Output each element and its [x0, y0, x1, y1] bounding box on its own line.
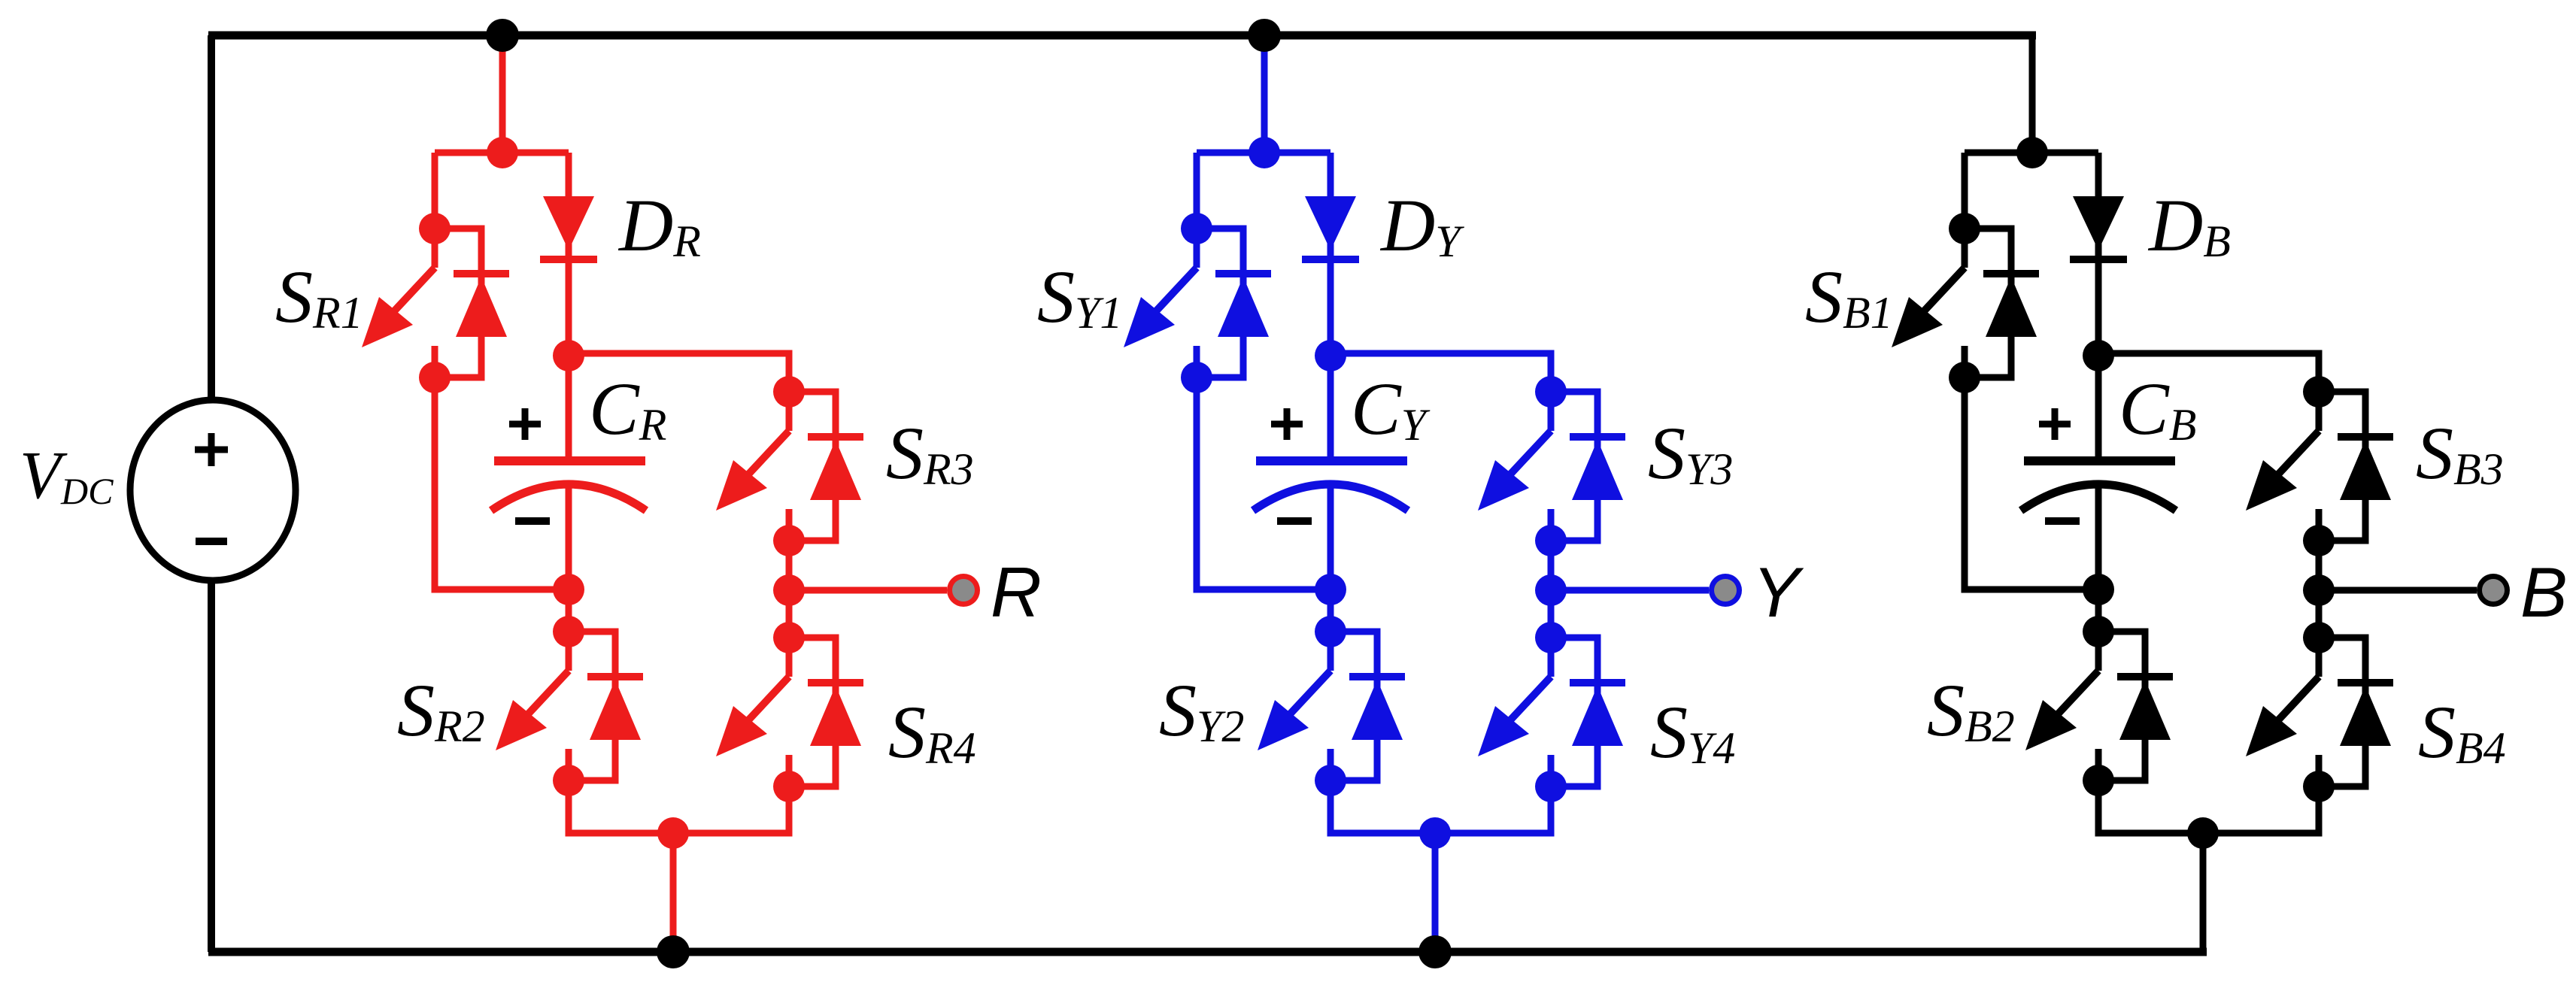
node: S_R1 bottom terminal	[419, 362, 451, 393]
node: phase R midpoint junction	[657, 817, 689, 849]
node: S_B1 top terminal	[1949, 213, 1980, 244]
switch S_Y4	[1478, 638, 1625, 786]
node: phase B output junction	[2303, 574, 2335, 606]
label: C_Y plus polarity mark	[1271, 421, 1303, 428]
node: phase R top junction	[487, 137, 518, 168]
capacitor C_Y	[1253, 356, 1408, 589]
wire: output lead	[2319, 587, 2477, 594]
switch S_R3	[716, 392, 863, 541]
label: C_Y minus polarity mark	[1277, 517, 1312, 525]
node: S_R4 bottom terminal	[773, 771, 805, 802]
wire: S_R4 to midpoint	[673, 786, 789, 833]
node: S_B1 bottom terminal	[1949, 362, 1980, 393]
wire: to S_B2	[2095, 589, 2102, 632]
wire: S_Y4 to midpoint	[1435, 786, 1551, 833]
switch S_B2	[2025, 632, 2173, 780]
node: D_Y cathode junction	[1315, 340, 1346, 371]
terminal B	[2477, 574, 2510, 607]
node: S_R4 top terminal	[773, 622, 805, 653]
node: S_R1 top terminal	[419, 213, 451, 244]
label: V_DC minus mark	[196, 538, 227, 545]
wire: phase Y top branch	[1197, 150, 1330, 156]
switch S_B3	[2246, 392, 2393, 541]
node: S_Y2 top terminal	[1315, 616, 1346, 647]
wire: junction to S_B3	[2098, 353, 2319, 392]
node: capacitor C_Y bottom junction	[1315, 574, 1346, 605]
wire: S_R1 return leg	[435, 377, 569, 589]
node: S_R3 top terminal	[773, 376, 805, 408]
capacitor C_R	[491, 356, 646, 589]
wire: S_R3 to S_R4	[786, 541, 793, 638]
wire: S_R2 to midpoint	[569, 780, 673, 833]
node: D_B cathode junction	[2083, 340, 2114, 371]
node: phase Y midpoint junction	[1419, 817, 1451, 849]
wire: down to S_R1	[432, 153, 438, 229]
diode D_R	[540, 153, 597, 356]
switch S_B4	[2246, 638, 2393, 786]
node: S_B3 top terminal	[2303, 376, 2335, 408]
diode D_Y	[1302, 153, 1359, 356]
node: capacitor C_R bottom junction	[553, 574, 584, 605]
node: S_Y1 top terminal	[1181, 213, 1212, 244]
wire: S_Y1 return leg	[1197, 377, 1330, 589]
node: capacitor C_B bottom junction	[2083, 574, 2114, 605]
label: V_DC plus mark	[195, 447, 228, 453]
wire: phase B feed from positive rail	[2029, 32, 2036, 153]
label: C_B plus polarity mark	[2039, 421, 2071, 428]
node: phase Y top junction	[1249, 137, 1280, 168]
diode D_B	[2070, 153, 2127, 356]
node: S_B4 top terminal	[2303, 622, 2335, 653]
wire: phase B top branch	[1965, 150, 2098, 156]
node: S_Y3 top terminal	[1535, 376, 1567, 408]
node: phase B midpoint junction	[2187, 817, 2219, 849]
node: S_Y1 bottom terminal	[1181, 362, 1212, 393]
switch S_R4	[716, 638, 863, 786]
wire: junction to S_R3	[569, 353, 789, 392]
node: S_B2 top terminal	[2083, 616, 2114, 647]
wire: S_B4 to midpoint	[2203, 786, 2319, 833]
wire: down to S_Y1	[1194, 153, 1200, 229]
wire: down to S_B1	[1962, 153, 1968, 229]
node: S_B3 bottom terminal	[2303, 525, 2335, 556]
wire: S_B1 return leg	[1965, 377, 2098, 589]
node: S_B2 bottom terminal	[2083, 765, 2114, 796]
node: S_B4 bottom terminal	[2303, 771, 2335, 802]
switch S_Y3	[1478, 392, 1625, 541]
wire: output lead	[789, 587, 947, 594]
wire: to S_Y2	[1327, 589, 1334, 632]
wire: phase R top branch	[435, 150, 569, 156]
node: S_R2 bottom terminal	[553, 765, 584, 796]
switch S_Y1	[1124, 229, 1271, 377]
label: C_R minus polarity mark	[515, 517, 550, 525]
node: D_R cathode junction	[553, 340, 584, 371]
wire: source negative lead	[208, 580, 215, 952]
wire: midpoint to negative rail	[2200, 833, 2207, 952]
capacitor C_B	[2021, 356, 2176, 589]
node: phase Y output junction	[1535, 574, 1567, 606]
node: S_Y2 bottom terminal	[1315, 765, 1346, 796]
source V_DC	[130, 400, 296, 580]
switch S_B1	[1892, 229, 2039, 377]
node: phase B top junction	[2016, 137, 2048, 168]
svg-text:B: B	[2520, 553, 2568, 632]
switch S_Y2	[1258, 632, 1405, 780]
svg-text:R: R	[991, 553, 1042, 632]
svg-text:Y: Y	[1752, 553, 1804, 632]
node: S_R3 bottom terminal	[773, 525, 805, 556]
switch S_R1	[362, 229, 509, 377]
wire: negative DC rail	[208, 948, 2207, 956]
wire: positive DC rail	[208, 32, 2036, 40]
wire: output lead	[1551, 587, 1709, 594]
terminal R	[947, 574, 980, 607]
wire: midpoint to negative rail	[670, 833, 677, 952]
node: yellow phase tap on positive rail	[1248, 19, 1281, 52]
node: S_R2 top terminal	[553, 616, 584, 647]
node: red phase tap on positive rail	[486, 19, 519, 52]
wire: phase R feed from positive rail	[499, 32, 506, 153]
node: red phase tap on negative rail	[657, 935, 690, 968]
node: S_Y4 bottom terminal	[1535, 771, 1567, 802]
wire: S_Y3 to S_Y4	[1548, 541, 1555, 638]
switch S_R2	[496, 632, 643, 780]
node: yellow phase tap on negative rail	[1418, 935, 1452, 968]
wire: phase Y feed from positive rail	[1261, 32, 1268, 153]
node: S_Y3 bottom terminal	[1535, 525, 1567, 556]
wire: to S_R2	[566, 589, 572, 632]
wire: junction to S_Y3	[1330, 353, 1551, 392]
label: C_B minus polarity mark	[2045, 517, 2080, 525]
wire: S_B2 to midpoint	[2098, 780, 2203, 833]
wire: midpoint to negative rail	[1432, 833, 1439, 952]
label: C_R plus polarity mark	[509, 421, 541, 428]
node: S_Y4 top terminal	[1535, 622, 1567, 653]
terminal Y	[1709, 574, 1742, 607]
wire: S_Y2 to midpoint	[1330, 780, 1435, 833]
wire: S_B3 to S_B4	[2316, 541, 2323, 638]
node: phase R output junction	[773, 574, 805, 606]
wire: source positive lead	[208, 35, 215, 401]
